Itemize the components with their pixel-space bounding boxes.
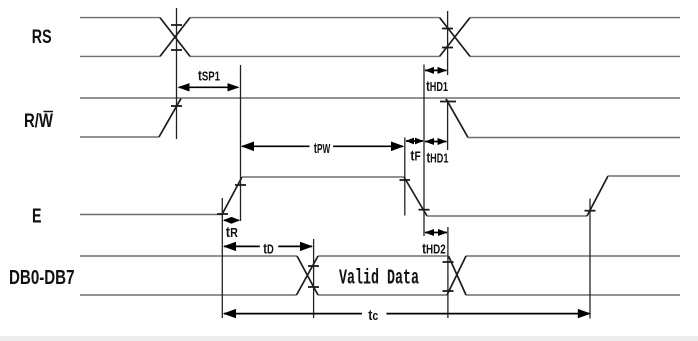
tick RS left lower [171, 49, 182, 51]
E falling edge [404, 177, 427, 216]
E high right rail [608, 175, 680, 177]
svg-text:E: E [32, 205, 42, 227]
tick RS right upper [442, 28, 453, 30]
R/W low left rail [80, 136, 159, 138]
svg-text:DB0-DB7: DB0-DB7 [9, 266, 75, 289]
tick E rise right [585, 210, 596, 212]
bottom gray band [0, 336, 698, 341]
tick E rise top [235, 184, 246, 186]
R/W falling edge [446, 99, 468, 138]
tick R/W fall [440, 101, 456, 103]
svg-text:tF: tF [410, 147, 420, 163]
arrow tR [223, 217, 240, 224]
RS crossover X right [440, 18, 470, 57]
DB0-DB7 bus rails [80, 256, 680, 295]
arrow tF [406, 138, 424, 145]
arrow tHD1 middle [425, 138, 448, 145]
DB crossover X left [297, 256, 319, 295]
svg-text:tPW: tPW [314, 140, 331, 157]
E high rail [242, 176, 404, 178]
svg-text:R/W: R/W [24, 110, 53, 132]
arrow tD [223, 242, 313, 251]
vertical ref line LC middle (R/W hold) [447, 100, 449, 150]
RS trace: rails [80, 18, 680, 57]
arrow tHD2 [425, 229, 448, 236]
vertical ref line L4 (DB valid / tD right) [313, 239, 315, 318]
tick DB left upper [308, 265, 319, 267]
arrow tPW [241, 142, 404, 152]
tick R/W rise [171, 105, 182, 107]
RS crossover X left [160, 18, 190, 57]
svg-text:tHD1: tHD1 [426, 77, 448, 94]
svg-text:tD: tD [263, 240, 274, 257]
svg-text:tHD2: tHD2 [422, 240, 446, 257]
tick E fall top [400, 179, 411, 181]
R/W low right rail [468, 137, 680, 139]
signal label R/W [24, 110, 53, 132]
tick DB right upper [443, 261, 454, 263]
tick E rise base [217, 213, 228, 215]
vertical ref line L3 (E rise / tD tC left) [221, 198, 223, 318]
vertical ref line LC upper (RS right hold) [447, 11, 449, 75]
vertical ref line L5 (tC right) [589, 199, 591, 319]
E rising edge right [587, 176, 608, 216]
svg-text:tHD1: tHD1 [427, 149, 449, 166]
svg-text:tc: tc [368, 307, 378, 323]
tick E fall base [419, 209, 430, 211]
vertical ref line LC lower (DB hold) [447, 227, 449, 318]
vertical ref line L1 (RS left / tSP1) [176, 8, 178, 139]
tick DB left lower [308, 286, 319, 288]
svg-text:tR: tR [226, 223, 239, 240]
tick DB right lower [443, 290, 454, 292]
svg-text:tSP1: tSP1 [198, 67, 220, 84]
vertical ref line LB (E fall / tF right) [423, 65, 425, 237]
R/W trace: top rail [80, 97, 680, 99]
E trace: low left rail [80, 214, 222, 216]
tick RS left upper [171, 24, 182, 26]
svg-text:Valid Data: Valid Data [339, 268, 419, 291]
arrow tHD1 top [425, 67, 448, 74]
E rising edge [222, 177, 242, 215]
vertical ref line LA (tPW right / tF left) [404, 138, 406, 216]
E low mid rail [427, 215, 587, 217]
DB crossover X right [447, 256, 466, 295]
svg-text:RS: RS [32, 26, 52, 48]
arrow tC [223, 309, 591, 318]
tick marks [171, 25, 596, 291]
R/W rising edge [159, 98, 181, 137]
vertical ref line L2 (tSP1 right / tPW left / tR right) [240, 65, 242, 221]
tick RS right lower [442, 47, 453, 49]
arrow tSP1 [178, 83, 240, 91]
